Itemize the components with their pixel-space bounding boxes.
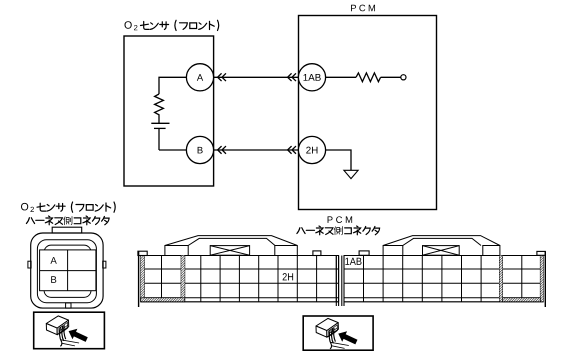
left half hatched border bar <box>141 256 145 302</box>
right half hood left shoulder <box>383 246 403 256</box>
left half bottom hatched rail <box>141 298 185 302</box>
left half hood right shoulder <box>275 246 298 256</box>
right half x-box <box>423 246 460 256</box>
PCM connector icon box <box>303 316 373 350</box>
wire A to left branch <box>159 77 186 94</box>
wire branch to B <box>159 149 186 151</box>
arrowheads on wire A-1AB <box>218 74 226 81</box>
right half hood outer roof <box>383 236 500 246</box>
left half end tab <box>138 251 147 255</box>
wire A to 1AB <box>214 76 299 78</box>
wire B to 2H <box>214 149 299 151</box>
right half tab above 1AB <box>359 251 369 255</box>
sensor connector left tab <box>28 261 31 268</box>
left half hood inner roof <box>188 238 275 245</box>
right half hatched border bar <box>540 256 543 302</box>
left half tab near right end <box>313 251 321 256</box>
right half hood inner roof <box>403 238 481 245</box>
sensor connector icon box <box>34 312 105 349</box>
sensor connector right tab <box>103 261 106 268</box>
label: PCM title <box>351 5 375 12</box>
label: harness-side connector line2 <box>26 216 109 225</box>
terminal circle 2H <box>298 136 325 163</box>
label: O2 sensor (front) title <box>125 20 219 30</box>
label: O2 sensor (front) connector line1 <box>21 202 115 212</box>
terminal label 1AB (strip) <box>345 258 361 265</box>
right half hatched bar <box>500 256 503 302</box>
terminal circle 1AB <box>298 64 325 91</box>
label: PCM harness-side connector <box>297 226 380 235</box>
terminal circle A <box>186 64 213 91</box>
resistor (PCM pull-up, horizontal zigzag) <box>356 73 381 82</box>
right half hood right shoulder <box>483 246 500 256</box>
battery cell symbol <box>151 118 169 150</box>
right half end tab <box>537 251 545 255</box>
wire resistor to terminal <box>381 76 401 78</box>
PCM box <box>299 16 437 210</box>
left half x-box <box>210 246 249 256</box>
sensor connector top tab <box>52 227 81 233</box>
wire 1AB to resistor <box>326 76 356 78</box>
sensor connector bottom tab <box>66 303 71 308</box>
strip bottom rail line <box>141 301 544 303</box>
wire 2H to ground <box>326 150 351 170</box>
terminal label 2H (strip) <box>283 273 293 280</box>
right half grid <box>344 256 543 302</box>
left half end leg <box>138 251 140 307</box>
sensor connector terminal grid <box>40 250 96 291</box>
left half second hatched bar <box>181 256 185 302</box>
right half bottom hatched rail <box>503 298 541 302</box>
left half grid <box>141 256 339 302</box>
left half inner end double line <box>336 256 338 307</box>
open terminal circle <box>401 75 406 80</box>
resistor (sensor internal, vertical zigzag) <box>155 94 164 118</box>
label: PCM (connector) <box>328 216 353 223</box>
right half inner end double line <box>342 256 344 307</box>
sensor connector outer shell <box>31 233 103 308</box>
arrowheads on wire B-2H <box>218 147 226 154</box>
sensor connector middle shell <box>37 240 96 303</box>
PCM connector icon <box>316 318 357 348</box>
sensor connector icon <box>46 316 87 346</box>
left half hood left shoulder <box>165 246 188 256</box>
terminal label B <box>51 276 56 283</box>
right half end leg <box>544 251 546 307</box>
ground symbol <box>344 170 358 178</box>
terminal label A <box>50 257 56 264</box>
terminal circle B <box>186 136 213 163</box>
sensor connector inner shell <box>44 245 91 297</box>
O2 sensor box <box>124 36 214 186</box>
left half hood outer roof <box>165 236 297 246</box>
